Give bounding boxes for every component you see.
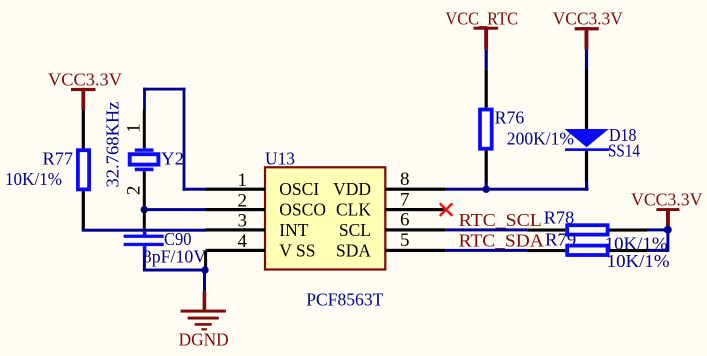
wire VCC3.3V to D18 xyxy=(585,69,588,129)
wire R76 navy to junction xyxy=(485,182,488,189)
value 8pF/10V xyxy=(143,247,207,267)
svg-text:2: 2 xyxy=(238,190,248,211)
label D18 xyxy=(609,125,637,145)
diode D18 xyxy=(565,129,610,151)
crystal Y2 xyxy=(130,148,159,171)
wire VCC_RTC navy segment xyxy=(485,50,488,69)
pin R78.2 xyxy=(610,229,648,232)
wire OSCI to pin 1 xyxy=(183,188,207,191)
pin 2 OSCO xyxy=(206,190,326,219)
wire SDA to R79 xyxy=(445,249,527,252)
pin R79.2 xyxy=(610,249,648,252)
power symbol VCC3.3V (right) xyxy=(631,190,703,229)
label R78 xyxy=(544,208,575,228)
svg-text:3: 3 xyxy=(238,211,248,232)
pin 7 CLK xyxy=(336,189,445,219)
svg-text:Y2: Y2 xyxy=(161,149,184,169)
wire R76 bottom xyxy=(485,151,488,182)
svg-text:SS14: SS14 xyxy=(608,141,640,161)
svg-text:8: 8 xyxy=(400,169,410,190)
svg-text:INT: INT xyxy=(279,220,308,240)
svg-text:V SS: V SS xyxy=(279,240,315,260)
pin 6 SCL xyxy=(339,210,446,240)
pin R79.1 xyxy=(527,249,565,252)
junction dot (VSS/GND) xyxy=(201,266,208,273)
svg-text:OSCI: OSCI xyxy=(279,179,319,199)
label PCF8563T xyxy=(306,290,383,310)
value 10K/1% (R79) xyxy=(607,251,670,271)
wire crystal pin 2 down xyxy=(143,171,146,208)
svg-text:4: 4 xyxy=(238,231,248,252)
svg-text:R76: R76 xyxy=(495,107,525,127)
svg-text:8pF/10V: 8pF/10V xyxy=(143,247,207,267)
label U13 xyxy=(265,149,295,169)
value 200K/1% xyxy=(507,129,574,149)
ground DGND xyxy=(181,291,226,330)
net label RTC_SDA xyxy=(459,230,545,250)
wire C90 bottom xyxy=(143,255,146,271)
svg-text:R77: R77 xyxy=(43,149,74,169)
svg-text:U13: U13 xyxy=(265,149,295,169)
svg-text:VCC3.3V: VCC3.3V xyxy=(631,190,703,210)
svg-text:RTC_SDA: RTC_SDA xyxy=(459,230,545,250)
svg-text:SDA: SDA xyxy=(336,240,371,260)
svg-text:DGND: DGND xyxy=(179,330,229,350)
label R76 xyxy=(495,107,525,127)
junction dot (VDD net) xyxy=(483,186,490,193)
svg-text:10K/1%: 10K/1% xyxy=(607,251,670,271)
capacitor C90 xyxy=(124,232,164,255)
svg-text:RTC_SCL: RTC_SCL xyxy=(459,210,542,230)
label Y2 xyxy=(161,149,184,169)
svg-text:VCC3.3V: VCC3.3V xyxy=(48,69,122,89)
svg-text:1: 1 xyxy=(123,124,144,134)
value 10K/1% (R78) xyxy=(605,234,668,254)
wire VDD net xyxy=(445,181,588,191)
wire to DGND xyxy=(203,270,206,291)
pin 1 OSCI xyxy=(206,170,320,199)
wire SCL to R78 xyxy=(445,228,527,231)
wire R78 to VCC xyxy=(647,228,669,231)
pin number 1 (Y2) xyxy=(123,124,144,134)
svg-text:1: 1 xyxy=(238,170,248,191)
svg-text:CLK: CLK xyxy=(336,200,371,220)
resistor R76 xyxy=(480,110,492,149)
svg-text:2: 2 xyxy=(123,186,144,196)
pin 3 INT xyxy=(206,211,309,240)
resistor R77 xyxy=(78,150,89,189)
junction dot (SCL pullup) xyxy=(664,226,672,234)
svg-text:32.768KHz: 32.768KHz xyxy=(103,101,123,187)
svg-text:VDD: VDD xyxy=(333,179,371,199)
pin 4 VSS xyxy=(206,231,316,260)
wire R77 bottom xyxy=(82,191,85,229)
resistor R79 xyxy=(567,246,607,255)
wire R79 to VCC corner xyxy=(647,230,669,252)
wire R77 to INT xyxy=(82,229,206,232)
svg-text:200K/1%: 200K/1% xyxy=(507,129,574,149)
wire OSCO net xyxy=(143,208,206,211)
svg-text:10K/1%: 10K/1% xyxy=(5,169,62,189)
wire crystal pin 1 xyxy=(143,110,146,149)
pin R78.1 xyxy=(527,229,565,232)
wire VCC3.3V to R77 xyxy=(82,110,85,149)
value 32.768KHz (Y2) xyxy=(103,101,123,187)
wire crystal loop (OSCI net) xyxy=(143,88,186,191)
wire VCC_RTC to R76 xyxy=(485,69,488,107)
svg-text:VCC3.3V: VCC3.3V xyxy=(553,9,623,29)
wire VCC3.3V navy segment xyxy=(585,50,588,70)
no-connect X (pin 7) xyxy=(440,203,453,216)
value SS14 xyxy=(608,141,640,161)
power symbol VCC3.3V (top-left) xyxy=(48,69,122,110)
svg-text:SCL: SCL xyxy=(339,220,371,240)
label C90 xyxy=(164,229,192,249)
svg-text:5: 5 xyxy=(400,230,410,251)
label R77 xyxy=(43,149,74,169)
wire VSS pin bend xyxy=(204,250,207,270)
svg-text:OSCO: OSCO xyxy=(279,200,326,220)
wire VSS net bottom xyxy=(143,269,206,272)
IC U13 PCF8563T xyxy=(265,167,385,269)
svg-text:6: 6 xyxy=(400,210,410,231)
pin 5 SDA xyxy=(336,230,445,260)
net label RTC_SCL xyxy=(459,210,542,230)
pin number 2 (Y2) xyxy=(123,186,144,196)
svg-text:VCC_RTC: VCC_RTC xyxy=(445,8,518,28)
junction dot (OSCO net) xyxy=(141,206,148,213)
pin 8 VDD xyxy=(333,169,445,199)
svg-text:PCF8563T: PCF8563T xyxy=(306,290,383,310)
value 10K/1% (R77) xyxy=(5,169,62,189)
label R79 xyxy=(545,230,576,250)
resistor R78 xyxy=(567,225,607,234)
wire D18 bottom xyxy=(585,151,588,181)
wire junction down to C90 xyxy=(143,210,146,229)
svg-text:7: 7 xyxy=(400,189,410,210)
label DGND xyxy=(179,330,229,350)
power symbol VCC_RTC xyxy=(445,8,518,50)
power symbol VCC3.3V (top-middle) xyxy=(553,9,623,50)
